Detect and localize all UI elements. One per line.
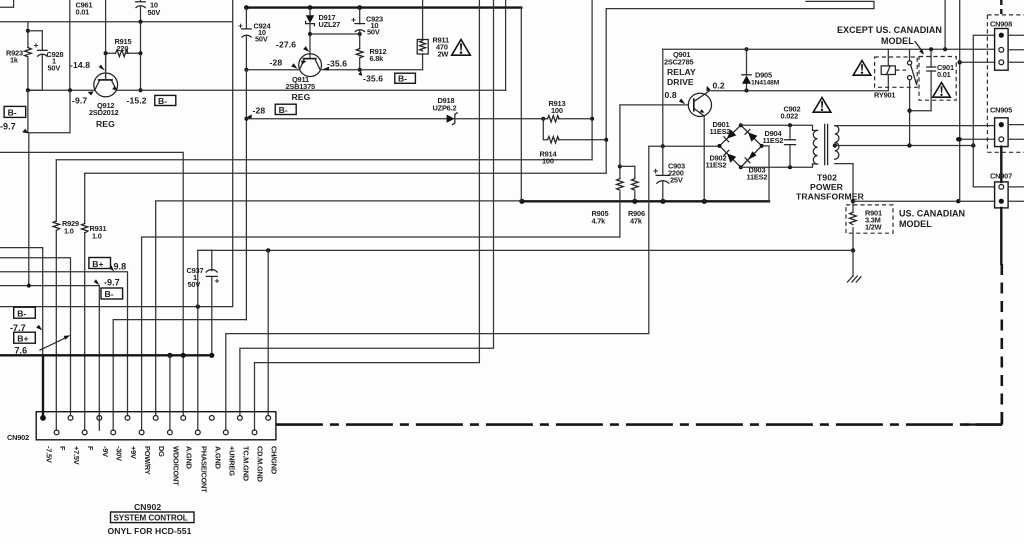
wire: -15.2 rail top segment y=21.8 [0,21,233,23]
label Q901 2SC2785 RELAY DRIVE [664,50,696,87]
svg-text:B+: B+ [17,333,28,343]
relay linkage dashes [895,69,906,71]
svg-text:B-: B- [8,108,17,118]
svg-text:6.8k: 6.8k [370,54,385,63]
svg-text:50V: 50V [148,8,161,17]
wire: Q912 collector from top edge [105,0,107,80]
resistor R923 [25,22,32,90]
wire: relay supply line y=49.2 to CN908 [663,47,995,51]
svg-text:+: + [34,40,39,50]
label Q912 2SD2012 REG [89,101,119,129]
dashed enclosure CN908/CN905 [987,15,1024,152]
svg-text:CN905: CN905 [990,106,1012,115]
diode bridge D901 11ES2 (top-left) [720,125,741,146]
wire: chassis line y=250.4 (CH/GND net) [198,248,853,252]
warning symbol (left of relay) [853,61,871,76]
svg-text:DRIVE: DRIVE [667,77,694,87]
svg-text:2SD2012: 2SD2012 [89,108,119,117]
resistor R914 [543,119,606,143]
label R914 100 [540,150,558,166]
label B+ 9.8 with arrow (at +9V line) [89,258,126,272]
wire: TC.M.GND net [240,0,494,416]
svg-text:-7.7: -7.7 [10,323,26,333]
wire: bold dash-dot page line horizontal y=424.6 [276,412,1002,425]
dash-dot page line above CN908 [1000,0,1002,15]
resistor R915 [104,50,143,57]
label CN908 [990,20,1012,29]
label D901 11ES2 [710,120,731,136]
label R911 470 2W [433,36,450,59]
svg-text:EXCEPT US. CANADIAN: EXCEPT US. CANADIAN [837,25,942,35]
label EXCEPT US. CANADIAN MODEL with arrow [837,25,942,55]
svg-text:T902: T902 [817,173,837,183]
svg-text:TC.M.GND: TC.M.GND [241,446,250,482]
label R913 100 [549,99,566,115]
label R923 1k [6,49,23,65]
svg-text:POWER: POWER [810,182,844,192]
wire: +9V line y=271.8 [0,272,128,416]
resistor R911 (boxed, fusible) [417,0,428,70]
svg-text:US. CANADIAN: US. CANADIAN [899,209,965,219]
svg-text:-9.7: -9.7 [72,96,87,106]
svg-text:CD.M.GND: CD.M.GND [256,446,265,483]
svg-text:0.01: 0.01 [937,70,951,79]
wire: -9V line y=285.6 [0,284,99,431]
svg-text:-7.5V: -7.5V [45,446,54,463]
wire: CN908 pin1 link to tap riser [973,35,994,187]
svg-text:-9V: -9V [101,446,110,457]
wire: Q901 emitter to ground [703,116,705,201]
svg-text:REG: REG [292,92,311,102]
label T902 POWER TRANSFORMER [796,173,865,202]
label D904 11ES2 [763,129,784,145]
node bridge corners [718,123,764,169]
label RY901 [874,91,895,100]
wire: C924 net down to -30V staircase [245,70,247,320]
label -28 (Q911 left) with arrow [270,58,298,69]
capacitor C928 [28,31,47,90]
node zener/C923 row junction [308,32,362,36]
node R901 bottom / chassis junction [851,248,855,252]
capacitor C902 [785,125,796,167]
svg-text:-28: -28 [270,58,283,68]
svg-text:B+: B+ [92,259,103,269]
wire: R915 right leg down to rail [139,53,143,92]
wire: PHASE/CONT net y=306.6 [0,0,233,309]
transistor Q901 2SC2785 [688,91,711,117]
wire: bridge minus to ground bus [762,146,769,201]
switch contact (relay) [908,49,917,145]
svg-text:-35.6: -35.6 [363,74,383,84]
label C937 1 50V [187,266,204,289]
label C923 10 50V [366,15,383,37]
label B+ 7.6 with curved arrow (left edge) [14,332,71,355]
label -14.8 with arrow [70,60,105,71]
connector CN902 [36,412,276,440]
svg-text:POW/RY: POW/RY [143,446,152,475]
label C903 2200 25V [668,162,685,185]
warning symbol (near R911) [452,40,471,56]
wire: DG riser and ground line y=201.3 [156,201,522,416]
wire: -28 / D918 line y=118.7 [244,114,543,120]
wire: ground bus bold y=201.3 [519,199,769,204]
wire: A.GND line y=152.4 [0,152,183,415]
label C902 0.022 [781,105,801,121]
capacitor C901 dashed outline [919,57,956,101]
label R931 1.0 [90,224,107,241]
svg-text:-35.6: -35.6 [327,59,347,69]
wire: F line 2 (y=173.2) [85,172,607,174]
connector CN905 [995,118,1024,147]
svg-text:2W: 2W [438,50,449,59]
label -35.6 with arrow (upper) [323,59,347,71]
node switch/C901 bottom junction [907,109,931,113]
wire: POW/RY line y=237 [142,237,620,430]
svg-text:CN902: CN902 [134,502,161,512]
svg-text:1.0: 1.0 [92,232,102,241]
diode D905 1N4148M [742,47,751,90]
connector CN907 [995,182,1024,208]
label -9.7 with arrow and B- box (at -9V line) [94,278,123,300]
wire: riser x=945.1 from top edge [944,0,946,49]
label CN902 (left of connector) [7,433,29,442]
wire: +7.5V line y=257.8 [0,258,71,416]
node C903 plus junction [649,144,720,148]
svg-text:SYSTEM CONTROL: SYSTEM CONTROL [114,513,188,522]
wire: CH/GND riser [267,250,269,415]
capacitor C901 [927,49,936,110]
svg-text:0.022: 0.022 [781,112,799,121]
wire: Q911 emitter -28 line [246,69,299,71]
wire: Q901 base wire [620,105,688,166]
diode bridge D903 11ES2 (bottom-right) [741,146,762,167]
wire: +UNREG line to CN902 [226,146,649,430]
svg-text:-9.7: -9.7 [104,278,120,288]
svg-text:REG: REG [96,119,115,129]
node Q901 base net junction [618,164,635,168]
wire: CN907 pin1 line [973,186,994,188]
diode bridge D902 11ES2 (bottom-left) [720,146,741,167]
label D902 11ES2 [706,154,727,170]
label R929 1.0 [62,219,79,236]
wire: main -15.2 rail y=90.2 [26,88,506,92]
label 0.8 with arrow [665,90,686,104]
svg-text:47k: 47k [630,217,643,226]
svg-text:-28: -28 [253,106,266,116]
svg-text:11ES2: 11ES2 [706,161,727,170]
wire: bold dashed page line vertical [1000,264,1003,425]
transformer T902 secondary winding [813,130,818,164]
svg-text:CN907: CN907 [990,172,1012,181]
node D917 top [308,5,313,10]
wire: Q901 collector to relay y=90.4 [709,89,888,93]
transistor Q912 2SD2012 [94,53,118,97]
svg-text:F: F [58,446,67,451]
label C928 1 50V [47,50,64,73]
label C901 0.01 [937,63,954,79]
wire: B- net down-stub to -9V line [28,133,30,286]
label CN902 SYSTEM CONTROL ONYL FOR HCD-551 [108,502,195,536]
transformer T902 core [825,124,828,164]
wire: F-2 riser x=606.2 to y=8.6 corner [604,1,874,173]
svg-text:2SC2785: 2SC2785 [664,58,694,67]
resistor R906 [632,166,639,201]
label C961 0.01 [76,1,93,17]
svg-text:+UNREG: +UNREG [227,446,236,476]
transformer T902 primary winding [835,126,839,160]
svg-text:1/2W: 1/2W [865,223,882,232]
wire: rail corner up to top edge x=505.6 [505,0,507,90]
svg-text:MODEL: MODEL [881,36,914,46]
transistor Q911 2SB1375 [299,54,322,77]
capacitor C903 [653,146,669,201]
label D905 1N4148M [751,71,780,87]
svg-text:WDO/CONT: WDO/CONT [171,446,180,486]
svg-text:RY901: RY901 [874,91,895,100]
relay RY901 coil [881,49,895,90]
svg-text:ONYL FOR HCD-551: ONYL FOR HCD-551 [108,526,192,536]
connector fragment top-left corner [0,0,14,7]
label CN905 [990,106,1012,115]
node R923/C928 top junction [26,29,42,33]
label D918 UZP6.2 [433,96,457,113]
label US. CANADIAN MODEL [899,209,965,230]
wire: AC top y=125.2 to transformer [741,123,813,130]
label -9.7 left edge with arrow [0,122,29,134]
svg-text:CN908: CN908 [990,20,1012,29]
wire: CN905 to CN907 bold link [1000,147,1002,182]
svg-text:B-: B- [398,74,407,84]
svg-text:1.0: 1.0 [64,227,74,236]
wire: F line 1 (y=159.8) [56,159,592,161]
wire: PHASE/CONT riser [198,250,212,430]
svg-text:+: + [215,276,220,286]
svg-text:50V: 50V [188,280,201,289]
svg-text:9.8: 9.8 [114,262,127,272]
wire: -7.5V bold pin lead [42,355,44,414]
svg-text:PHASE/CONT: PHASE/CONT [199,446,208,493]
svg-text:-27.6: -27.6 [276,40,296,50]
capacitor C937 [206,250,219,355]
svg-text:7.6: 7.6 [15,346,28,356]
label Q911 2SB1375 REG [286,75,316,102]
warning symbol (in C901 box) [933,83,951,98]
svg-text:+: + [653,166,658,176]
svg-text:25V: 25V [670,176,683,185]
ground (chassis) [848,250,861,282]
svg-text:B-: B- [158,96,167,106]
label 0.2 with arrow [706,81,724,92]
svg-text:RELAY: RELAY [667,67,696,77]
svg-text:F: F [86,446,95,451]
svg-text:MODEL: MODEL [899,219,932,229]
label -15.2 and B- box [127,95,176,105]
svg-text:-15.2: -15.2 [127,96,147,106]
svg-text:0.2: 0.2 [713,81,725,91]
label D903 11ES2 [747,166,768,182]
svg-text:D905: D905 [755,71,772,80]
wire: line y=201.2 to CN907 pin 2 [853,199,995,203]
capacitor 10 50V (top left) [136,0,146,22]
svg-text:CH/GND: CH/GND [270,446,279,475]
svg-text:+: + [238,21,243,31]
diode D918 UZP6.2 (zener) [447,113,458,125]
label C924 10 50V [254,22,272,44]
svg-text:UZP6.2: UZP6.2 [433,104,457,113]
svg-text:B-: B- [279,105,288,115]
capacitor C924 [238,8,251,70]
wire: bold -7.5V bus y=355.3 [0,353,214,358]
svg-text:50V: 50V [367,28,380,37]
capacitor C923 [351,5,365,48]
label R912 6.8k [370,47,387,63]
wire: +UNREG riser x=662.8 [662,49,664,146]
label R905 4.7k [592,209,609,226]
svg-text:100: 100 [542,157,554,166]
connector CN908 [995,29,1024,71]
wire: CN907 bold lead down [1000,208,1002,264]
label -28 and B- box (D918 line) [253,104,297,115]
label -27.6 with arrow [276,40,309,52]
resistor R929 [53,160,59,430]
svg-text:2SB1375: 2SB1375 [286,82,316,91]
diode bridge D904 11ES2 (top-right) [741,125,762,146]
svg-text:11ES2: 11ES2 [747,173,768,182]
resistor R912 [356,49,363,72]
label -35.6 and B- box (lower) [358,71,415,84]
wire: primary tap line y=145.5 [833,143,976,147]
wire: CN908 pin3 line [960,61,995,63]
label B- box left edge [4,106,26,117]
svg-text:+7.5V: +7.5V [72,446,81,465]
resistor R901 (dashed outline) [846,201,893,250]
wire: F-1 riser to top edge x=592.1 [590,0,594,160]
relay RY901 dashed outline [875,57,918,87]
wire: WDO/CONT stub [169,355,171,430]
svg-text:11ES2: 11ES2 [710,127,731,136]
node Q911 base junction [244,68,248,72]
svg-text:UZL27: UZL27 [319,20,341,29]
svg-text:+: + [351,15,356,25]
resistor R905 [617,166,624,237]
svg-text:-14.8: -14.8 [70,60,90,70]
svg-text:0.8: 0.8 [665,90,677,100]
node cap/rail junction [139,20,143,53]
svg-text:100: 100 [551,106,563,115]
svg-text:CN902: CN902 [7,433,29,442]
label R901 3.3M 1/2W [865,209,882,232]
wire: CN905 pin2 line [956,137,995,141]
svg-text:A.GND: A.GND [185,446,194,470]
label CN907 [990,172,1012,181]
wire: AC bottom y=167.2 to transformer [741,164,813,170]
svg-text:+9V: +9V [129,446,138,459]
wire: GND riser x=521.3 [520,8,522,202]
wire: B- bracket below rail [28,90,70,133]
resistor R931 [82,173,88,430]
label B- -7.7 (left edge) [10,307,42,333]
svg-text:4.7k: 4.7k [592,217,607,226]
wire: GND top bus y=7.6 (bold) [244,5,521,10]
wire: CD.M.GND net [255,0,480,430]
wire: -30V line y=319.6 [113,320,246,431]
diode D917 UZL27 (zener) [306,8,315,59]
wire: -7.5V feed line y=247.6 [0,248,43,356]
wire: riser x=959.7 from top edge to CN907 line [958,0,962,201]
label D917 UZL27 [319,13,341,29]
svg-text:-9.7: -9.7 [0,122,16,132]
svg-text:0.01: 0.01 [76,8,90,17]
svg-text:1N4148M: 1N4148M [751,80,780,87]
svg-text:B-: B- [17,308,26,318]
svg-text:1k: 1k [10,56,19,65]
wire: primary bottom lead down to y=201.2 [835,164,856,204]
svg-text:11ES2: 11ES2 [763,136,784,145]
wire: primary top lead to CN905 pin 1 [835,125,995,127]
svg-text:220: 220 [117,44,129,53]
svg-text:B-: B- [105,289,114,299]
resistor R913 [541,116,592,122]
label 10 50V [148,1,161,18]
svg-text:50V: 50V [48,64,61,73]
svg-text:DG: DG [157,446,166,457]
svg-text:50V: 50V [255,35,268,44]
svg-text:A.GND: A.GND [213,446,222,470]
label CN902 pin names [45,446,279,493]
label R906 47k [628,209,645,226]
label -9.7 with arrow (Q912 left) [72,91,94,105]
wire: Q911 collector -35.6 line [320,69,422,71]
label R915 220 [115,37,132,53]
wire: C961 line from top edge to main rail [69,0,71,90]
svg-text:-30V: -30V [115,446,124,461]
warning symbol (above transformer) [813,98,831,113]
